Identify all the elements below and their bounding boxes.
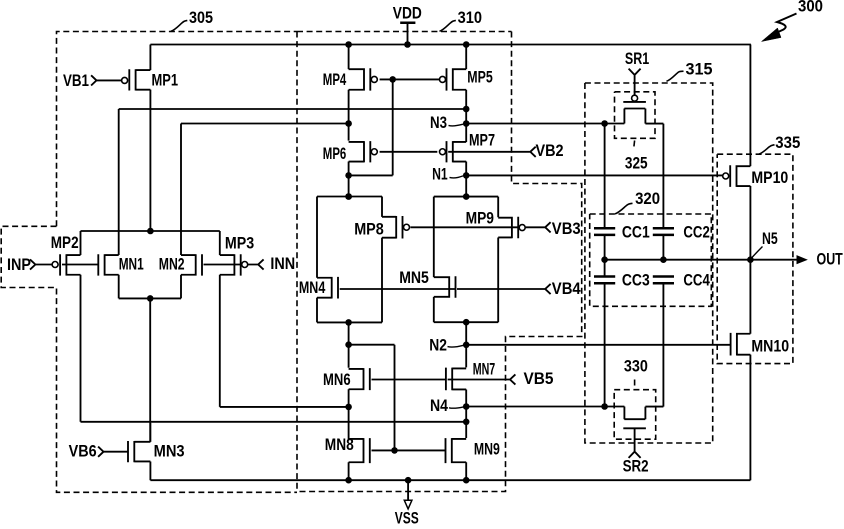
- svg-text:MP8: MP8: [354, 219, 384, 238]
- svg-text:MP5: MP5: [467, 68, 493, 87]
- svg-text:335: 335: [775, 133, 800, 152]
- svg-text:MP9: MP9: [466, 209, 494, 228]
- svg-text:MN3: MN3: [154, 441, 185, 460]
- svg-text:CC1: CC1: [622, 222, 650, 241]
- svg-text:VB2: VB2: [536, 141, 564, 160]
- svg-text:VB6: VB6: [69, 441, 97, 460]
- svg-text:SR1: SR1: [625, 49, 649, 68]
- svg-text:INP: INP: [7, 255, 31, 274]
- svg-text:MP3: MP3: [225, 233, 254, 252]
- svg-text:VDD: VDD: [393, 4, 422, 23]
- svg-text:MN4: MN4: [299, 278, 326, 297]
- svg-text:VB5: VB5: [524, 369, 554, 388]
- svg-text:VSS: VSS: [395, 509, 419, 528]
- svg-text:CC2: CC2: [683, 222, 709, 241]
- svg-text:300: 300: [798, 0, 823, 16]
- svg-text:MN7: MN7: [473, 360, 496, 379]
- svg-text:N5: N5: [762, 229, 778, 248]
- svg-text:N1: N1: [432, 165, 448, 184]
- svg-text:MN8: MN8: [325, 435, 354, 454]
- svg-text:MP2: MP2: [51, 233, 79, 252]
- svg-text:MN9: MN9: [474, 440, 500, 459]
- svg-text:MP10: MP10: [751, 168, 788, 187]
- svg-text:N4: N4: [430, 396, 448, 415]
- svg-text:MP7: MP7: [469, 130, 495, 149]
- svg-text:N3: N3: [430, 113, 447, 132]
- svg-text:MP6: MP6: [323, 144, 347, 163]
- svg-text:MN1: MN1: [119, 254, 144, 273]
- svg-text:CC3: CC3: [622, 271, 650, 290]
- svg-text:MN6: MN6: [323, 370, 351, 389]
- svg-text:315: 315: [686, 60, 713, 79]
- svg-text:SR2: SR2: [623, 457, 649, 476]
- svg-text:MN5: MN5: [399, 268, 429, 287]
- svg-text:MP4: MP4: [323, 70, 347, 89]
- svg-text:VB3: VB3: [552, 219, 581, 238]
- svg-text:320: 320: [635, 189, 660, 208]
- svg-text:MN2: MN2: [159, 254, 185, 273]
- svg-text:310: 310: [458, 8, 482, 27]
- svg-text:325: 325: [625, 153, 648, 172]
- svg-text:VB1: VB1: [63, 71, 89, 90]
- svg-text:OUT: OUT: [817, 249, 844, 268]
- svg-text:MN10: MN10: [751, 337, 789, 356]
- svg-text:330: 330: [624, 356, 648, 375]
- svg-text:305: 305: [189, 8, 213, 27]
- svg-text:INN: INN: [270, 254, 295, 273]
- svg-text:CC4: CC4: [683, 271, 710, 290]
- svg-text:N2: N2: [429, 336, 447, 355]
- svg-text:MP1: MP1: [152, 71, 179, 90]
- svg-text:VB4: VB4: [552, 279, 581, 298]
